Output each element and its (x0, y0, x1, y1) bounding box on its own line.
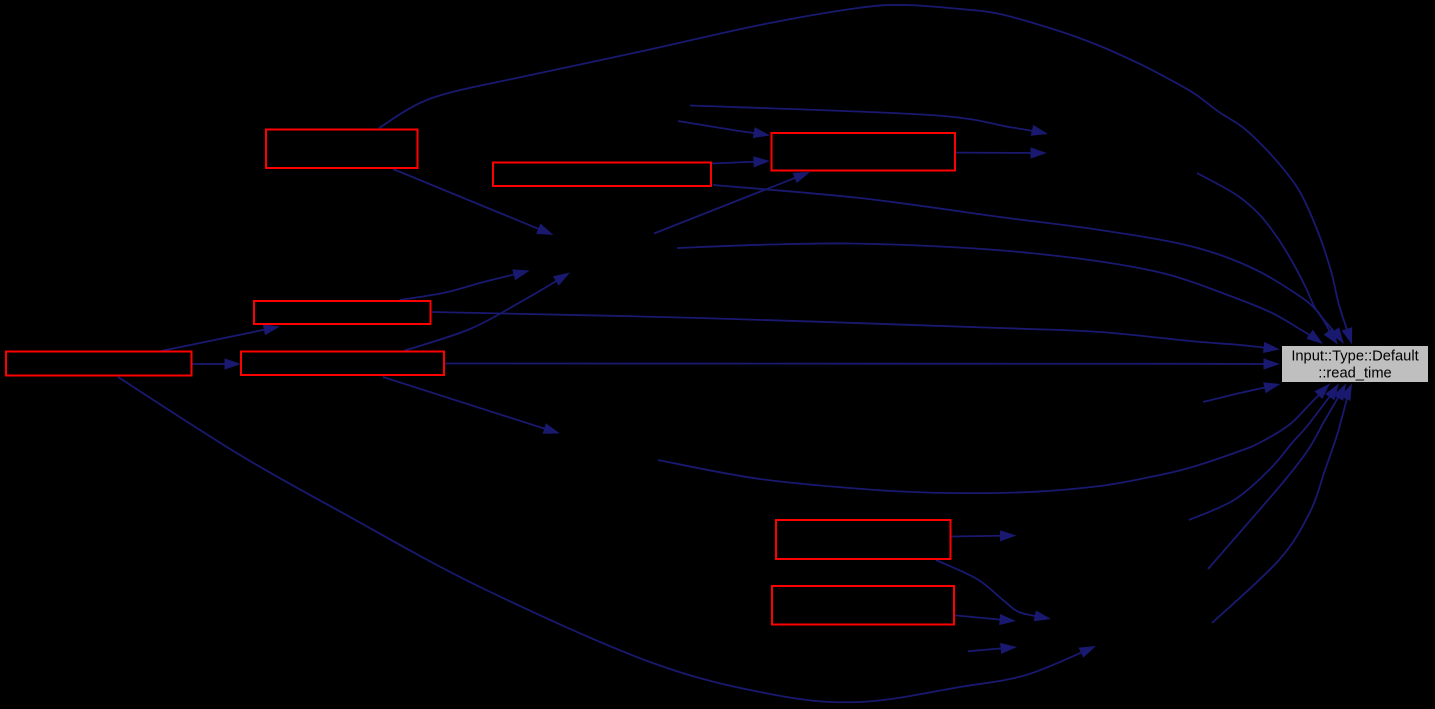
edge: node G to hidden node n13 (s-curve) (936, 560, 1051, 621)
node F (red box) (241, 352, 444, 376)
node H (red box, lower middle 2) (772, 586, 954, 625)
edge: hidden node n5 to read_time (upper fan 2) (1197, 173, 1344, 344)
edge: node B to read_time (upper fan 3) (713, 185, 1338, 345)
edge: node D to read_time (left arrow 1) (432, 312, 1280, 353)
edge: node E to node F (193, 358, 242, 369)
node G (red box, lower middle) (776, 520, 951, 559)
edge: node E to hidden node n14 (long bottom diagonal) (118, 377, 1096, 702)
edge: hidden node n10 swoop to read_time (lower fan 1) (658, 384, 1330, 494)
edge: node A top arc to read_time (top-right) (379, 5, 1352, 345)
node E (red box, far left) (6, 352, 192, 376)
edge: node H to hidden node n13 (955, 614, 1016, 625)
focus node Input::Type::Default::read_time (gray box) (1282, 346, 1429, 383)
edge: hidden node n13 to read_time (lower fan 4) (1212, 384, 1352, 624)
edge: node C to hidden node n2 (956, 147, 1047, 158)
node D (red box) (254, 301, 431, 324)
edge: hidden node n12 to read_time (lower fan 3) (1208, 384, 1346, 570)
edge: node E to node D (161, 324, 280, 351)
svg-text:::read_time: ::read_time (1318, 365, 1391, 381)
edge: node G to hidden node n11 (952, 530, 1017, 541)
edge: hidden node n11 to read_time (lower fan 2) (1189, 384, 1339, 521)
edge: node A to hidden node n1 (393, 169, 554, 235)
edge: hidden node n6 to hidden node n2 (long top line) (690, 106, 1048, 136)
edge: node F to hidden node n7 (405, 273, 571, 351)
edge: hidden node n7 to read_time (upper fan 4) (677, 243, 1323, 344)
edge: node F to hidden node n10 (383, 377, 560, 434)
edge: node B to node C (712, 156, 770, 167)
node B (red box) (493, 163, 711, 187)
edge: hidden node n1 to node C (654, 172, 810, 234)
edge: hidden node n15 to hidden node n14 (short arrow) (968, 643, 1017, 654)
edge: hidden node n9 to read_time (corner arrow) (1203, 382, 1281, 402)
node A (red box, top left) (266, 130, 418, 169)
edge: hidden node n6 to node C (678, 121, 770, 138)
node C (red box) (772, 133, 956, 171)
svg-text:Input::Type::Default: Input::Type::Default (1291, 348, 1418, 364)
edge: node D to hidden node n7 (400, 269, 530, 300)
edge: node F to read_time (left arrow 2) (445, 358, 1280, 369)
